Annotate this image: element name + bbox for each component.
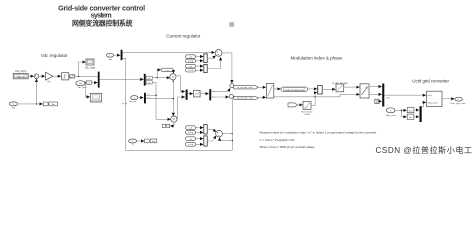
wire Idq feedback loop (bar1 to bottom rail) <box>123 58 233 150</box>
wire bar4 to converter block B5 <box>384 94 426 96</box>
demux bar6 <box>144 93 146 104</box>
wires lower stack to mux C D <box>196 128 204 145</box>
svg-text:i_d: i_d <box>189 56 192 58</box>
svg-text:Uref: Uref <box>428 94 433 97</box>
demux bar2 <box>144 74 146 86</box>
block max K1 <box>407 107 414 112</box>
svg-text:w.L.iq: w.L.iq <box>188 132 193 134</box>
wire barC to circle C1 <box>211 88 230 91</box>
wire <box>322 88 335 90</box>
wire <box>442 98 454 100</box>
model info icon <box>230 23 234 27</box>
mux A <box>204 54 207 63</box>
svg-text:Vabc_prim: Vabc_prim <box>428 101 438 104</box>
product S5 <box>170 74 176 80</box>
mux bar5 <box>420 106 422 122</box>
wire Vdc feedback to sum S1 <box>36 79 38 104</box>
svg-text:Vdc_regul: Vdc_regul <box>85 67 96 70</box>
block transform BB <box>194 90 201 97</box>
wire vertical x232 C2 to bottom rail <box>231 99 233 150</box>
svg-text:m = Vnom * 2*sqrt(2/3) / Vdc: m = Vnom * 2*sqrt(2/3) / Vdc <box>260 138 296 142</box>
svg-text:Current regulator: Current regulator <box>166 33 201 38</box>
svg-text:w.L.id: w.L.id <box>188 144 193 146</box>
svg-text:Vref: Vref <box>386 96 390 99</box>
block min K2 <box>407 114 414 119</box>
svg-text:Vabc_prim: Vabc_prim <box>386 114 396 117</box>
junction <box>173 81 174 82</box>
svg-text:Where: Vnom = RMS ph-ph nomina: Where: Vnom = RMS ph-ph nominal voltage <box>260 145 315 149</box>
svg-text:网侧变流器控制系统: 网侧变流器控制系统 <box>72 18 133 27</box>
wire <box>137 140 145 142</box>
svg-text:0-360: 0-360 <box>304 114 310 116</box>
demux barC <box>209 89 211 100</box>
wire <box>315 93 317 97</box>
from tags stack upper (4 rows) <box>186 55 196 72</box>
wire barC to circle C2 <box>211 96 229 98</box>
from tags stack lower (4 rows) <box>186 126 196 146</box>
junction <box>141 140 142 141</box>
manual switch MS <box>360 84 369 98</box>
wire <box>75 75 98 77</box>
wire <box>274 88 281 90</box>
svg-text:Modulation index & phase: Modulation index & phase <box>291 56 343 61</box>
wire into product S3 <box>156 118 171 120</box>
wire <box>298 104 303 106</box>
wire <box>258 86 266 88</box>
wire muxD to sum S4 <box>207 136 216 141</box>
wire <box>200 93 209 95</box>
wire muxC to sum S4 <box>207 129 216 132</box>
svg-text:Vdc_mes (V): Vdc_mes (V) <box>90 102 103 104</box>
block Vdc_ref B1 <box>13 70 28 79</box>
svg-text:Vdc_mes: Vdc_mes <box>77 87 87 89</box>
input port oval E6 Vabc_prim <box>386 108 395 113</box>
scope Vdc_regul B4 <box>85 59 96 70</box>
signal label stub <box>147 97 150 98</box>
wire bar6 out2 <box>146 98 173 100</box>
wire muxA to sum S2 <box>207 56 216 58</box>
svg-text:m_iq: m_iq <box>122 103 128 105</box>
goto tag rate pentagon P4 <box>288 103 298 107</box>
wire bar2 out2 down to product S3 <box>152 82 156 119</box>
input port oval E7 <box>129 139 137 143</box>
circle C2 <box>229 94 233 98</box>
wire <box>138 97 144 99</box>
wire <box>395 109 407 111</box>
goto tag phi_ref_gen_conv <box>234 96 259 99</box>
product S3 <box>171 116 177 122</box>
output port oval E5 Uctrl_gen_conv <box>455 97 462 101</box>
wire <box>172 70 174 73</box>
wire <box>79 62 86 76</box>
svg-text:Uctrl grid converter: Uctrl grid converter <box>412 79 449 84</box>
block PI regulator B2 <box>62 73 69 80</box>
svg-text:i_q: i_q <box>189 66 192 68</box>
wire <box>114 54 121 56</box>
mux B <box>204 64 207 72</box>
svg-text:i_d: i_d <box>189 127 192 129</box>
junction <box>78 76 79 77</box>
svg-text:Vdc regulator: Vdc regulator <box>41 53 68 58</box>
svg-text:w.L.id: w.L.id <box>188 70 193 72</box>
svg-text:L.w: L.w <box>166 70 170 72</box>
svg-text:Vdc_ref(V): Vdc_ref(V) <box>15 70 27 73</box>
wire <box>18 103 43 105</box>
wire bar6 out1 <box>146 94 156 96</box>
block conversion K <box>86 81 92 84</box>
wire MS to bar4 upper <box>369 86 382 88</box>
mux D <box>204 136 207 146</box>
svg-text:CSDN @拉普拉斯小电工: CSDN @拉普拉斯小电工 <box>376 145 473 155</box>
wire <box>84 82 87 84</box>
signal label stub <box>147 94 150 95</box>
sum S4 <box>216 130 223 137</box>
junction <box>85 82 86 83</box>
junction <box>36 103 37 104</box>
svg-text:Uctrl_gen_conv: Uctrl_gen_conv <box>450 102 466 105</box>
wire <box>53 75 61 77</box>
port block u2 <box>146 81 152 84</box>
block pill m_phi_ref_gen_conv <box>281 87 308 91</box>
wire bar0 to demux bar2 <box>100 78 144 80</box>
scope Vdc_mes B6 <box>90 93 101 101</box>
block Uctrl computation B5 <box>427 91 443 106</box>
wire <box>92 82 98 84</box>
wire S5 to mux barA <box>176 76 185 92</box>
mux barA <box>186 90 188 100</box>
junction <box>232 140 233 141</box>
wire SL to manual switch <box>344 86 360 88</box>
wire vertical to product S3 <box>172 79 174 116</box>
gain tag T1 L.w <box>161 68 173 71</box>
wire bar2 out1 to product S5 <box>152 77 170 79</box>
mux bar4 <box>382 84 384 107</box>
svg-text:i_q: i_q <box>189 138 192 140</box>
port block u1 <box>146 76 152 79</box>
wires upper stack to mux A B <box>196 57 204 71</box>
wire <box>414 116 419 118</box>
junction <box>157 77 158 78</box>
svg-text:m_ref_gen_conv: m_ref_gen_conv <box>237 86 253 89</box>
wire bar5 to B5 <box>422 102 426 106</box>
junction <box>173 98 174 99</box>
goto tag m_ref_gen_conv <box>234 86 259 89</box>
junction <box>314 96 315 97</box>
block polar-to-mag-phase M1 <box>266 83 273 98</box>
wire RL up to mux M2 <box>311 97 315 106</box>
wire S3 up to mux barA <box>177 97 185 119</box>
wire <box>39 75 45 77</box>
block rate limiter RL <box>303 102 311 110</box>
gain G1 Kv <box>46 72 53 80</box>
mux C <box>204 125 207 134</box>
junction <box>155 95 156 96</box>
wire up to tag T1 <box>157 70 161 78</box>
wire <box>188 93 193 95</box>
title Grid-side converter control system <box>58 3 145 27</box>
wire <box>308 88 317 90</box>
sum S2 <box>215 50 222 57</box>
svg-text:Idq_ref: Idq_ref <box>129 100 136 103</box>
svg-text:Required value for modulation: Required value for modulation index "m" … <box>260 131 377 135</box>
wire <box>28 75 34 77</box>
wire <box>402 110 407 117</box>
note text <box>260 131 377 149</box>
constant D <box>375 99 379 103</box>
wire <box>379 100 382 102</box>
junction <box>401 110 402 111</box>
goto tag left P5 <box>166 124 170 127</box>
from tag Vdc oval E1 <box>76 81 85 86</box>
circle C1 <box>230 84 234 88</box>
junction <box>232 133 233 134</box>
sum S1 <box>34 74 39 79</box>
block rate transition SL <box>336 84 344 92</box>
mux bar1 <box>121 50 123 60</box>
wire M1 lower out to manual switch <box>274 94 360 96</box>
svg-text:Rate limiter: Rate limiter <box>301 110 312 113</box>
input port oval E2 Vdc <box>9 102 17 106</box>
input port oval E4 Idq_ref <box>131 96 138 100</box>
labels of lower stack <box>188 127 193 146</box>
block saturation B3 <box>70 75 75 78</box>
mux M2 <box>318 86 323 94</box>
wire loop into S4 bottom <box>220 138 233 141</box>
wire MS to bar4 lower <box>369 93 382 95</box>
wire S4 out <box>222 133 232 135</box>
wire <box>258 96 266 98</box>
wire muxB to sum S2 <box>207 57 220 68</box>
wire bar1 to sum S2 <box>123 51 215 53</box>
wire <box>85 83 90 97</box>
wire <box>414 109 419 111</box>
goto tag Vdc P1 <box>43 102 49 106</box>
wire S2 down to circle C1 <box>222 53 232 83</box>
svg-text:system: system <box>91 11 112 20</box>
svg-text:m_phi_ref_gen_conv: m_phi_ref_gen_conv <box>285 88 305 91</box>
svg-text:w.L.iq: w.L.iq <box>188 61 193 63</box>
labels of upper stack <box>188 56 193 72</box>
mux bar0 <box>98 72 100 88</box>
goto tag Idq P6 <box>145 139 151 143</box>
svg-text:phi_ref_gen_conv: phi_ref_gen_conv <box>237 97 254 100</box>
svg-text:Vdc_ref: Vdc_ref <box>17 75 26 78</box>
input port oval E3 Idq <box>107 53 114 57</box>
wire S3 to goto tag <box>170 122 174 126</box>
